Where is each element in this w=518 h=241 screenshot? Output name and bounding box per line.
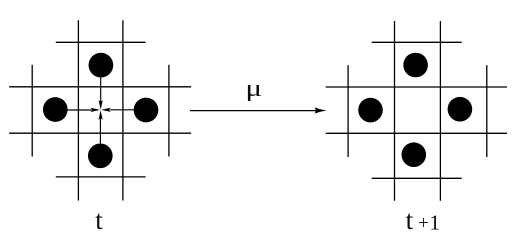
big arrow for move mu [190,107,327,114]
right lattice: vertical line col2 (long) [394,21,396,201]
svg-text:1: 1 [429,210,440,234]
right lattice: horizontal line row1 (short) [372,41,462,43]
right lattice: horizontal line row3 (long) [326,132,507,134]
arrow from top particle to center [99,77,103,109]
left lattice: vertical line col2 (long) [77,20,79,200]
svg-text:μ: μ [245,75,262,102]
left lattice: vertical line col3 (long) [122,20,124,200]
left lattice: vertical line col1 (short) [31,65,33,157]
particle top (left lattice) [89,53,114,78]
left lattice: horizontal line row1 (short) [56,41,146,43]
left lattice: vertical line col4 (short) [168,65,170,157]
particle left (left lattice) [43,97,68,122]
left lattice: horizontal line row3 (long) [9,132,191,134]
right lattice: vertical line col4 (short) [486,65,488,157]
right lattice: vertical line col3 (long) [439,21,441,201]
particle left (right lattice) [358,98,383,123]
left lattice: horizontal line row2 (long) [9,86,191,88]
left lattice: horizontal line row4 (short) [56,176,146,178]
arrow from left particle to center [68,108,101,112]
svg-text:+: + [418,214,428,234]
arrow from right particle to center [101,108,133,112]
right lattice: vertical line col1 (short) [347,65,349,157]
right lattice: horizontal line row4 (short) [372,177,462,179]
particle bottom (right lattice) [402,142,427,167]
right lattice: horizontal line row2 (long) [326,86,507,88]
svg-text:t: t [406,205,414,235]
svg-text:t: t [95,205,103,235]
particle right (left lattice) [134,98,159,123]
particle right (right lattice) [448,97,473,122]
particle bottom (left lattice) [88,143,113,168]
particle top (right lattice) [403,53,428,78]
arrow from bottom particle to center [99,110,103,143]
